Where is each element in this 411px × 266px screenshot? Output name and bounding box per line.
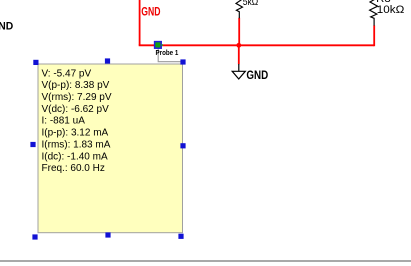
- wire (net GND vertical, left): [139, 0, 141, 45]
- probe info box (yellow readout panel): [38, 64, 183, 233]
- selection handle (bottom-left): [32, 234, 37, 239]
- resistor R1 (zigzag body + lead, clipped at top): [236, 0, 243, 18]
- wire (main horizontal): [139, 44, 375, 46]
- selection handle (bottom-right): [178, 234, 183, 239]
- selection handle (top-middle): [105, 58, 110, 63]
- wire (node to ground, vertical red): [238, 45, 240, 64]
- selection handle (mid-right): [180, 143, 185, 148]
- selection handle (top-left): [33, 60, 38, 65]
- selection handle (bottom-middle): [105, 232, 110, 237]
- svg-text:GND: GND: [246, 68, 268, 82]
- svg-text:V: -5.47 pV: V: -5.47 pV: [42, 68, 92, 79]
- svg-text:5kΩ: 5kΩ: [243, 0, 259, 8]
- svg-text:V(dc): -6.62 pV: V(dc): -6.62 pV: [42, 104, 110, 115]
- selection handle (mid-left): [30, 142, 35, 147]
- probe Probe 1 (marker square on wire): [155, 42, 163, 49]
- wire (R2 to wire, vertical red): [373, 25, 375, 46]
- svg-text:10kΩ: 10kΩ: [377, 4, 405, 16]
- sheet edge (grey separator line at bottom): [0, 260, 411, 261]
- selection handle (top-right): [180, 59, 185, 64]
- resistor R2 (zigzag body + lead): [370, 0, 378, 26]
- label probe measurements (text lines): [42, 68, 112, 174]
- svg-text:V(rms): 7.29 pV: V(rms): 7.29 pV: [42, 92, 112, 103]
- svg-text:I(p-p): 3.12 mA: I(p-p): 3.12 mA: [42, 128, 109, 139]
- junction (node at R1/ground crossing): [236, 43, 241, 48]
- svg-text:I(rms): 1.83 mA: I(rms): 1.83 mA: [42, 139, 111, 150]
- svg-text:Probe 1: Probe 1: [156, 48, 179, 57]
- svg-text:V(p-p): 8.38 pV: V(p-p): 8.38 pV: [42, 80, 110, 91]
- ground (symbol below node): [232, 64, 245, 79]
- svg-text:I(dc): -1.40 mA: I(dc): -1.40 mA: [42, 151, 108, 162]
- svg-text:GND: GND: [141, 5, 160, 19]
- svg-text:I: -881 uA: I: -881 uA: [42, 116, 86, 127]
- wire (R1 to node, vertical red): [238, 18, 240, 46]
- wire (grey leader from probe to info box): [158, 49, 181, 62]
- svg-text:GND: GND: [0, 21, 13, 33]
- svg-text:Freq.: 60.0 Hz: Freq.: 60.0 Hz: [42, 163, 105, 174]
